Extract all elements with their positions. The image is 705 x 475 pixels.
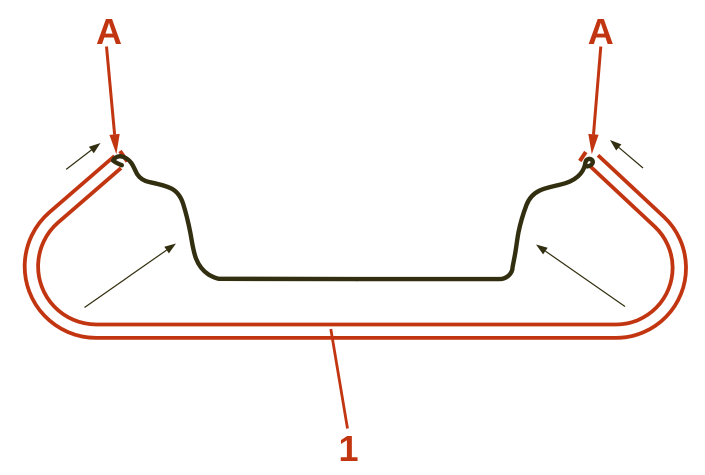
leader line for label 1 — [331, 329, 348, 429]
leader arrow A left — [107, 47, 115, 135]
leader arrow A right — [594, 47, 601, 135]
thin arrow mid left — [85, 244, 177, 308]
weatherstrip outer line (red) — [25, 155, 686, 338]
thin arrow mid right — [536, 245, 625, 307]
rim flange right (dark) — [357, 159, 593, 279]
thin arrow upper left — [66, 143, 100, 169]
svg-text:A: A — [588, 11, 614, 52]
weatherstrip lip hook right — [580, 152, 586, 161]
svg-text:A: A — [96, 11, 122, 52]
weatherstrip lip hook left — [120, 151, 127, 162]
svg-text:1: 1 — [338, 428, 358, 469]
thin arrow upper right — [610, 140, 643, 168]
weatherstrip inner line (red) — [38, 166, 673, 324]
rim flange left (dark) — [113, 156, 357, 279]
